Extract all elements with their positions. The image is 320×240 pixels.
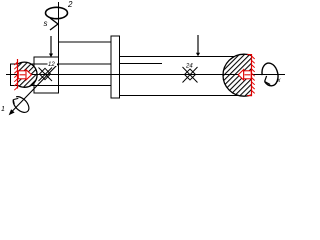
svg-text:s: s [44,19,48,28]
svg-text:1: 1 [1,106,5,113]
svg-text:12: 12 [48,62,55,68]
svg-text:2: 2 [67,0,73,9]
svg-text:24: 24 [185,64,193,70]
